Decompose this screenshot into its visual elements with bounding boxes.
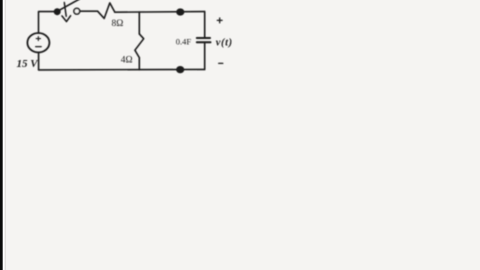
svg-text:8Ω: 8Ω bbox=[112, 19, 124, 29]
wire right branch upper bbox=[204, 12, 206, 38]
svg-text:0.4F: 0.4F bbox=[176, 36, 192, 46]
V1 plus mark bbox=[36, 37, 40, 41]
svg-text:4Ω: 4Ω bbox=[121, 55, 133, 65]
svg-text:v(t): v(t) bbox=[216, 37, 233, 48]
switch node dot bbox=[55, 9, 60, 14]
wire middle branch lower bbox=[138, 58, 140, 70]
capacitor C1 plates bbox=[197, 38, 211, 42]
wire bottom rail bbox=[39, 68, 205, 71]
wire middle branch upper bbox=[138, 12, 140, 34]
resistor R1 8ohm zigzag bbox=[98, 3, 115, 19]
wire left: source top to top-left corner to switch node bbox=[39, 12, 57, 34]
wire right branch lower bbox=[204, 43, 206, 70]
switch closing arrow bbox=[62, 3, 71, 22]
resistor R2 4ohm zigzag bbox=[135, 34, 144, 58]
V1 minus mark bbox=[36, 46, 42, 48]
plus polarity mark bbox=[217, 18, 222, 23]
node dot bottom bbox=[177, 67, 184, 73]
minus polarity mark bbox=[219, 62, 223, 64]
voltage source V1 bbox=[27, 33, 49, 52]
switch open contact bbox=[74, 8, 80, 14]
wire: source bottom to bottom-left corner bbox=[38, 52, 40, 69]
switch blade bbox=[58, 0, 80, 11]
wire: switch to resistor R1 bbox=[80, 10, 98, 12]
node dot top bbox=[177, 9, 184, 15]
svg-text:15 V: 15 V bbox=[17, 58, 40, 70]
wire top rail: resistor to top-right corner bbox=[115, 11, 205, 14]
